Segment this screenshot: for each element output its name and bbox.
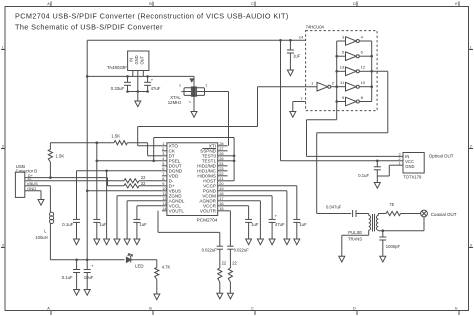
svg-text:TOTX179: TOTX179 (403, 175, 422, 180)
svg-text:0.1uF: 0.1uF (62, 275, 73, 280)
svg-text:A: A (47, 2, 50, 6)
svg-text:1: 1 (470, 46, 472, 50)
svg-text:12: 12 (361, 65, 366, 70)
svg-text:PCM2704: PCM2704 (197, 218, 218, 223)
svg-text:22: 22 (141, 175, 146, 180)
svg-text:22: 22 (141, 181, 146, 186)
svg-text:15: 15 (219, 206, 223, 211)
svg-text:1uF: 1uF (99, 222, 107, 227)
svg-text:47uF: 47uF (275, 222, 285, 227)
svg-text:3: 3 (398, 152, 400, 156)
svg-text:GND: GND (405, 164, 414, 169)
svg-text:1.5K: 1.5K (111, 133, 120, 138)
svg-text:22: 22 (232, 261, 237, 266)
svg-text:10uF: 10uF (84, 275, 94, 280)
svg-text:D: D (353, 2, 356, 6)
svg-text:13: 13 (340, 65, 345, 70)
svg-text:2: 2 (398, 157, 400, 161)
svg-text:0.33uF: 0.33uF (111, 86, 125, 91)
svg-text:OUT: OUT (139, 55, 144, 64)
svg-text:1uF: 1uF (251, 222, 259, 227)
svg-text:The Schematic of USB-S/PDIF Co: The Schematic of USB-S/PDIF Converter (15, 23, 163, 32)
svg-text:74HCU04: 74HCU04 (306, 25, 325, 30)
svg-text:LED: LED (135, 264, 144, 269)
svg-text:E: E (455, 307, 458, 311)
svg-text:PULSE: PULSE (348, 230, 362, 235)
svg-text:1uF: 1uF (299, 222, 307, 227)
svg-text:3: 3 (2, 244, 4, 248)
svg-text:B: B (149, 2, 152, 6)
svg-text:12MHz: 12MHz (168, 100, 182, 105)
svg-text:3: 3 (470, 244, 472, 248)
svg-text:2: 2 (2, 145, 4, 149)
svg-text:0.022uF: 0.022uF (234, 248, 250, 253)
svg-text:0.1uF: 0.1uF (358, 173, 369, 178)
svg-text:75: 75 (389, 202, 394, 207)
svg-text:Optical OUT: Optical OUT (429, 154, 454, 159)
svg-text:VOUTR: VOUTR (200, 209, 217, 214)
svg-text:100uH: 100uH (35, 235, 47, 240)
svg-text:GND: GND (134, 55, 139, 64)
svg-text:2: 2 (470, 145, 472, 149)
svg-text:1: 1 (2, 46, 4, 50)
svg-text:B: B (149, 307, 152, 311)
svg-text:1.5K: 1.5K (55, 153, 64, 158)
svg-text:TRANS: TRANS (348, 236, 362, 241)
svg-text:4.7K: 4.7K (162, 264, 171, 269)
svg-text:E: E (455, 2, 458, 6)
svg-text:VOUTL: VOUTL (169, 209, 185, 214)
svg-text:0.047uF: 0.047uF (326, 205, 342, 210)
svg-text:~: ~ (188, 100, 191, 106)
svg-text:1uF: 1uF (293, 54, 301, 59)
svg-text:C: C (251, 307, 254, 311)
svg-text:Coaxial OUT: Coaxial OUT (431, 212, 457, 217)
svg-text:0.1uF: 0.1uF (62, 222, 73, 227)
svg-text:0.022uF: 0.022uF (202, 248, 218, 253)
svg-text:10: 10 (361, 80, 366, 85)
svg-text:1: 1 (205, 84, 207, 88)
svg-text:22: 22 (222, 261, 227, 266)
svg-text:A: A (47, 307, 50, 311)
svg-text:C: C (251, 2, 254, 6)
svg-text:14: 14 (299, 35, 304, 40)
svg-text:PCM2704 USB-S/PDIF Converter (: PCM2704 USB-S/PDIF Converter (Reconstruc… (15, 12, 289, 21)
svg-text:1: 1 (179, 84, 181, 88)
svg-text:IN: IN (128, 58, 133, 62)
svg-text:1000pF: 1000pF (386, 244, 401, 249)
svg-text:1uF: 1uF (139, 222, 147, 227)
svg-text:TA48033F: TA48033F (107, 65, 127, 70)
svg-text:47uF: 47uF (151, 86, 161, 91)
svg-text:D: D (353, 307, 356, 311)
